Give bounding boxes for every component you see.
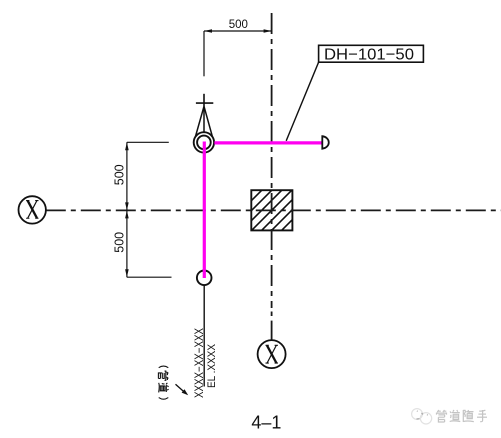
left dimension pair 500/500: [127, 142, 172, 277]
horizontal centerline: [46, 209, 501, 211]
dao 道: [450, 410, 461, 422]
shou 手: [477, 410, 487, 422]
pipe end cap D: [322, 136, 328, 149]
svg-text:EL .XXXX: EL .XXXX: [206, 343, 218, 388]
svg-text:XXXX−XX−XXX: XXXX−XX−XXX: [194, 328, 206, 398]
pipe vertical (magenta): [203, 142, 206, 279]
tag line below circle: [203, 285, 205, 386]
top dimension 500: [204, 31, 272, 76]
watermark text (hand-drawn CJK) 管道随手: [437, 410, 488, 422]
glyph guan 管: [158, 371, 168, 380]
hatched equipment square: [202, 180, 342, 240]
paren (: [159, 366, 169, 368]
svg-text:4–1: 4–1: [251, 413, 281, 433]
valve cone: [195, 106, 213, 139]
pipe horizontal (magenta): [214, 141, 322, 144]
(pipe) note rotated: hand-drawn glyphs (管道): [158, 366, 168, 399]
pipe end circle bottom: [197, 271, 212, 286]
tag box DH-101-50: [319, 45, 424, 62]
note arrow: [176, 384, 184, 391]
watermark icon: [412, 409, 432, 424]
valve circles: [194, 132, 214, 152]
leader line to tag box: [286, 62, 318, 141]
sui 随: [463, 410, 474, 422]
paren ): [159, 398, 169, 400]
guan 管: [437, 410, 447, 422]
glyph dao 道: [159, 383, 169, 393]
svg-text:500: 500: [112, 164, 126, 185]
svg-text:500: 500: [112, 232, 126, 253]
svg-text:500: 500: [229, 19, 248, 31]
svg-text:DH−101−50: DH−101−50: [324, 47, 414, 64]
valve symbol: cross: [196, 94, 213, 107]
vertical centerline: [271, 13, 273, 308]
node X left (axis bubble): [19, 196, 46, 223]
node X bottom (axis bubble): [258, 340, 286, 368]
